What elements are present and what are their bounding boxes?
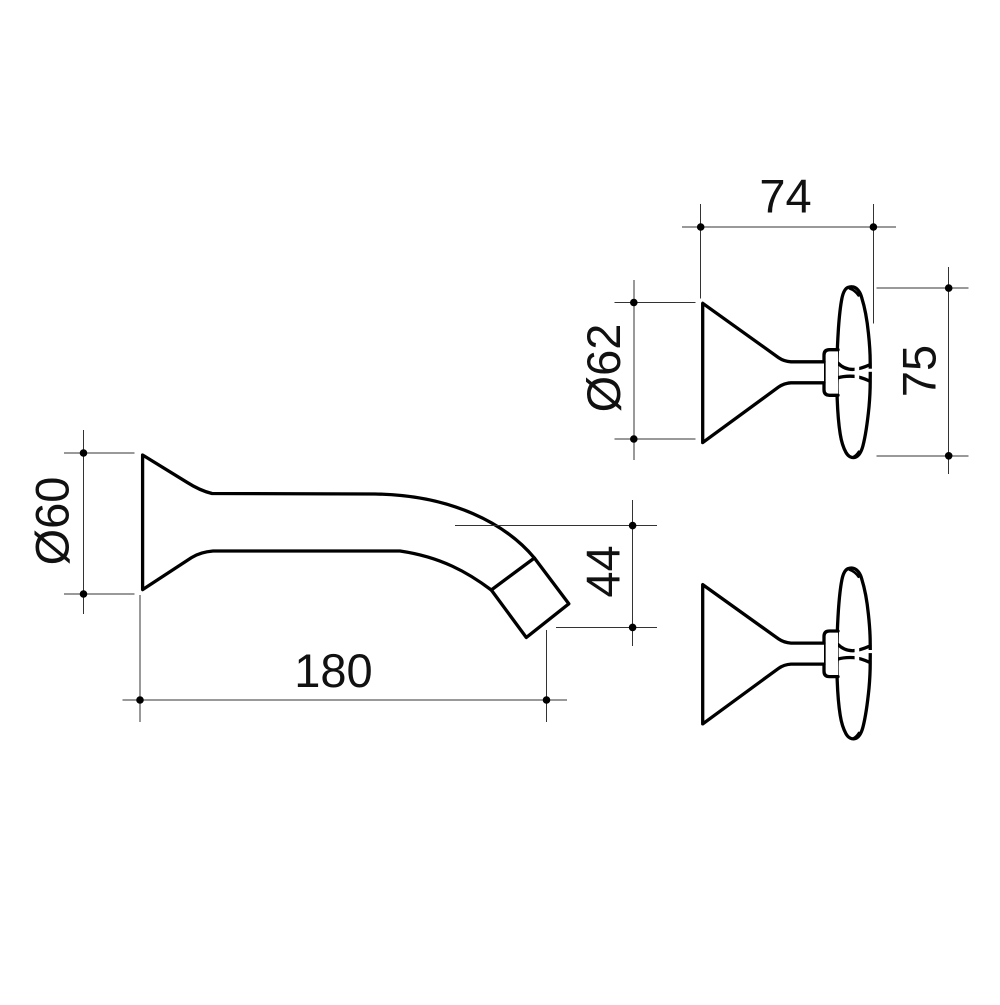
blade top crease (bottom) [850, 570, 859, 577]
handle adapter flange [824, 350, 838, 396]
svg-text:74: 74 [759, 170, 811, 223]
spout tip joint line [491, 558, 534, 590]
dot Ø60 bottom [80, 590, 88, 598]
svg-text:Ø62: Ø62 [577, 324, 630, 413]
blade top crease [850, 289, 859, 296]
dim Ø60 top extension [64, 452, 135, 454]
waist gap patch (bottom) [855, 646, 860, 662]
dot 180 right [543, 696, 551, 704]
dot Ø62 bottom [630, 435, 638, 443]
right edge gap patch (bottom) [868, 650, 873, 653]
handle waist upper curve [838, 363, 870, 370]
blade bottom crease [853, 452, 859, 458]
dim 44 top extension [455, 525, 657, 527]
dot 74 right [870, 223, 878, 231]
right edge gap patch [868, 369, 873, 372]
dim Ø60 line [83, 430, 85, 614]
handle cone and neck [703, 303, 824, 442]
dot 74 left [697, 223, 705, 231]
dim 180 right extension [545, 630, 547, 722]
handle waist lower curve [838, 376, 870, 381]
dot Ø60 top [80, 449, 88, 457]
spout outline [143, 455, 569, 638]
handle adapter flange (bottom) [824, 631, 838, 677]
dim 75 line [948, 267, 950, 474]
dot 75 top [945, 284, 953, 292]
dim 74 left extension [700, 204, 702, 299]
handle waist upper curve (bottom) [838, 644, 870, 651]
handle blade [837, 287, 870, 458]
dim Ø62 top extension [615, 302, 696, 304]
svg-text:Ø60: Ø60 [26, 477, 79, 566]
dim Ø62 bottom extension [615, 438, 696, 440]
dim 75 top extension [876, 287, 968, 289]
handle cone and neck (bottom) [703, 585, 824, 724]
svg-text:180: 180 [294, 644, 372, 697]
handle waist lower curve (bottom) [838, 657, 870, 662]
svg-text:75: 75 [893, 345, 946, 397]
dim Ø62 line [633, 280, 635, 460]
dim 44 line [632, 500, 634, 646]
handle blade (bottom) [837, 568, 870, 739]
waist gap patch [855, 364, 860, 380]
svg-text:44: 44 [576, 545, 629, 597]
dim 74 line [682, 226, 896, 228]
dot 75 bottom [945, 452, 953, 460]
dim 74 right extension [872, 204, 874, 324]
dim 75 bottom extension [876, 455, 968, 457]
dim 180 line [123, 699, 568, 701]
dot Ø62 top [630, 299, 638, 307]
dim 44 bottom extension [556, 626, 657, 628]
dim Ø60 bottom extension [64, 593, 135, 595]
blade bottom crease (bottom) [853, 733, 859, 739]
spout body with wall flange and cut tip [143, 455, 569, 638]
dot 44 bottom [629, 624, 637, 632]
dot 44 top [629, 522, 637, 530]
dot 180 left [136, 696, 144, 704]
dim 180 left extension [139, 595, 141, 722]
